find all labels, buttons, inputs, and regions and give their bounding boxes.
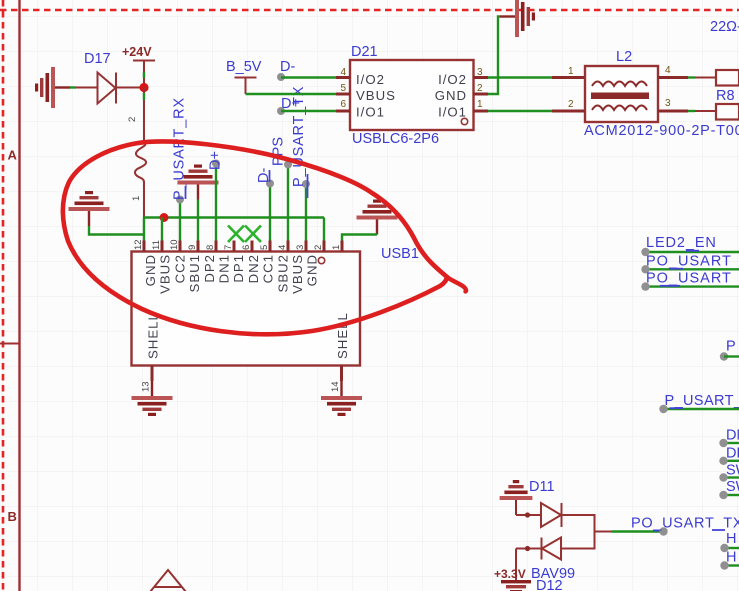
svg-text:CC1: CC1 (261, 254, 276, 283)
node P_USART (659, 405, 667, 413)
L2 winding top (592, 82, 647, 87)
svg-text:A: A (8, 148, 18, 163)
svg-text:GND: GND (143, 254, 158, 286)
svg-text:VBUS: VBUS (290, 254, 305, 294)
svg-text:USBLC6-2P6: USBLC6-2P6 (352, 131, 439, 147)
power bar B_5V (235, 77, 257, 79)
svg-text:PO_USART: PO_USART (646, 271, 732, 287)
svg-text:B: B (8, 509, 17, 524)
label underline PO_USART_TX tick (653, 530, 661, 532)
node D- (266, 180, 274, 188)
wire GND3 to pin 1 (342, 235, 377, 242)
svg-text:P: P (726, 339, 736, 355)
svg-text:LED2_EN: LED2_EN (646, 235, 717, 251)
svg-text:4: 4 (665, 65, 671, 76)
resistor R8a body (716, 70, 739, 86)
svg-text:USB1: USB1 (381, 246, 419, 262)
node P_USART_RX (176, 196, 184, 204)
node P_USART_TX (302, 180, 310, 188)
wire D- (pin 5) (269, 184, 271, 242)
svg-text:2: 2 (568, 99, 574, 110)
annotation freehand red circle (63, 142, 447, 335)
wire PO_USART 2 (646, 285, 739, 287)
right edge wire 3 (724, 476, 739, 478)
L2 core bar (591, 93, 649, 100)
svg-text:SW: SW (726, 479, 739, 495)
wire D11 cathode (562, 514, 596, 516)
wire below junction (143, 88, 145, 94)
pin 1 inversion bubble (318, 257, 324, 263)
svg-text:ACM2012-900-2P-T00: ACM2012-900-2P-T00 (584, 123, 739, 139)
svg-text:9: 9 (187, 245, 198, 250)
no-connect X pin 7 (228, 226, 244, 243)
bus wire above USB1 (144, 216, 324, 218)
wire stub PO_USART_TX red (595, 531, 612, 533)
no-connect X pin 6 (245, 226, 261, 243)
sheet border: top dashed line (0, 9, 739, 12)
wire D21 pin1 to L2 pin2 (488, 110, 552, 112)
ground GND3 (right of bus) (357, 200, 398, 235)
L2 pin3 wire (658, 110, 688, 113)
svg-text:3: 3 (665, 98, 671, 109)
D21 left pin stubs (336, 78, 488, 112)
node PO_USART 1 (641, 265, 649, 273)
svg-text:I/O2: I/O2 (356, 72, 385, 87)
pin stubs USB1 top (144, 241, 342, 252)
node PO_USART_TX (659, 527, 667, 535)
wire pin11 (161, 218, 163, 242)
connector USB1 box (132, 252, 361, 366)
svg-text:+24V: +24V (122, 45, 152, 59)
wire D17 cathode to +24V node (116, 87, 144, 89)
ground GND13 below USB left (132, 381, 173, 416)
svg-text:SBU1: SBU1 (187, 254, 202, 292)
ground GND2 (pin 9) (178, 165, 219, 200)
power +24V (133, 60, 155, 62)
svg-text:I/O2: I/O2 (438, 72, 467, 87)
ground GND_D17 (left of D17, bars pointing left) (35, 67, 70, 108)
fuse F squiggle body (135, 143, 146, 182)
diode D11 (541, 503, 561, 527)
svg-text:5: 5 (259, 245, 270, 250)
svg-text:11: 11 (151, 240, 162, 250)
node PO_USART 2 (641, 282, 649, 290)
svg-text:7: 7 (223, 245, 234, 250)
wire D21 pin3 to L2 pin1 (488, 76, 552, 78)
svg-text:2: 2 (127, 117, 138, 122)
svg-text:DP2: DP2 (202, 254, 217, 283)
svg-text:CC2: CC2 (172, 254, 187, 283)
svg-text:SW: SW (726, 463, 739, 479)
wire P_USART (664, 408, 739, 410)
wire PO_USART 1 (646, 268, 739, 270)
svg-text:SBU2: SBU2 (275, 254, 290, 292)
svg-text:R8: R8 (716, 88, 735, 104)
wire bus end down to pin 2 (323, 218, 325, 242)
svg-text:DP: DP (726, 446, 739, 462)
wire diode join vertical (594, 514, 596, 550)
svg-text:22Ω-: 22Ω- (710, 19, 739, 35)
ground GND1 (left of USB) (69, 191, 110, 226)
svg-text:1: 1 (477, 99, 483, 110)
svg-text:D17: D17 (84, 51, 111, 67)
ground GND14 below USB right (321, 381, 362, 416)
wire D12 cathode left (516, 548, 542, 550)
junction node D11 anode (525, 512, 530, 517)
wire P_USART_RX (pin 10) (179, 200, 181, 242)
wire D+ (pin 8) (215, 164, 217, 242)
D21 bubble (461, 118, 467, 124)
right edge wire H2 (725, 564, 739, 566)
right edge wire H1 (725, 547, 739, 549)
junction node +24V (139, 83, 148, 92)
svg-text:6: 6 (340, 99, 346, 110)
power triangle (bottom) (150, 570, 186, 591)
svg-text:2: 2 (313, 245, 324, 250)
svg-text:P_USART_RX: P_USART_RX (172, 97, 188, 200)
label PO_USART_TX underline (712, 529, 725, 531)
svg-text:2: 2 (477, 83, 483, 94)
wire D21 pin2 GND up (488, 17, 500, 95)
wire D12 anode (561, 548, 596, 550)
wire P_USART_TX vertical (pin 3) (305, 184, 307, 241)
svg-text:3: 3 (295, 245, 306, 250)
svg-text:SHELL: SHELL (335, 312, 350, 359)
svg-text:3: 3 (477, 67, 483, 78)
D21 pin numbers (340, 67, 483, 110)
svg-text:GND: GND (305, 254, 320, 286)
svg-text:D+: D+ (208, 151, 224, 170)
right edge wire 2 (724, 460, 739, 462)
wire PO_USART_TX (612, 530, 664, 532)
svg-text:+3.3V: +3.3V (494, 567, 526, 581)
svg-text:GND: GND (435, 88, 467, 103)
junction node D12 (525, 546, 530, 551)
node LED2_EN (641, 248, 649, 256)
IC D21 box (350, 60, 474, 130)
svg-text:8: 8 (205, 245, 216, 250)
resistor R8b body (716, 104, 739, 120)
wire GND1 to pin 12 (89, 226, 144, 235)
wire D- to D21 pin 4 (281, 76, 336, 78)
wire pin9 (197, 200, 199, 242)
power +3.3V bars (501, 580, 531, 583)
svg-text:D-: D- (280, 59, 295, 75)
right edge wire 1 (724, 442, 739, 444)
node D+ (212, 160, 220, 168)
svg-text:10: 10 (169, 239, 180, 250)
L2 winding bottom (592, 106, 647, 111)
node D- wire end (277, 73, 285, 81)
annotation tail (447, 277, 466, 292)
wire P (724, 355, 739, 357)
wire D+ to D21 pin 6 (281, 110, 336, 112)
diode D12 (542, 538, 561, 560)
svg-text:L2: L2 (616, 49, 632, 65)
wire B_5V to D21 pin 5 (246, 93, 337, 95)
node PPS (284, 161, 292, 169)
ground GND5 (top, bars pointing right) (500, 0, 535, 37)
svg-text:P_USART_: P_USART_ (665, 393, 739, 409)
svg-text:SHELL: SHELL (146, 312, 161, 359)
L2 pin4 wire (658, 76, 688, 79)
wire down to +3.3V (515, 549, 517, 581)
svg-text:B_5V: B_5V (226, 59, 262, 75)
svg-text:14: 14 (330, 381, 341, 392)
node P (720, 352, 728, 360)
svg-text:1: 1 (568, 66, 574, 77)
svg-text:D21: D21 (351, 44, 378, 60)
pin numbers USB1 top (133, 239, 342, 250)
svg-text:DM: DM (726, 427, 739, 443)
svg-text:4: 4 (277, 245, 288, 250)
diode D17 (98, 73, 116, 104)
svg-text:5: 5 (340, 83, 346, 94)
D21 pin names (356, 72, 467, 120)
wire PPS (pin 4) (287, 165, 289, 242)
svg-text:I/O1: I/O1 (356, 105, 385, 120)
pin names USB1 (143, 254, 320, 294)
wire D17 anode (70, 86, 76, 88)
svg-text:D12: D12 (536, 578, 563, 591)
zone divider (0, 343, 20, 345)
svg-text:1: 1 (331, 245, 342, 250)
right edge wire 4 (724, 494, 739, 496)
svg-text:DN2: DN2 (246, 254, 261, 283)
sheet border: left dashed line (2, 0, 5, 591)
svg-text:4: 4 (340, 67, 346, 78)
svg-text:I/O1: I/O1 (438, 105, 467, 120)
choke L2 box (585, 66, 658, 122)
wire pin12 below bus (143, 218, 145, 242)
svg-text:PO_USART: PO_USART (646, 254, 732, 270)
svg-text:PPS: PPS (271, 137, 287, 166)
svg-text:D11: D11 (529, 479, 555, 495)
ground GND4 (above D11) (500, 480, 533, 515)
svg-text:DN1: DN1 (217, 254, 232, 283)
svg-text:6: 6 (241, 245, 252, 250)
svg-text:12: 12 (133, 239, 144, 250)
pin 14 stub (340, 366, 343, 382)
wire GND4 to D11 anode (516, 514, 541, 516)
junction node pin 11 (160, 213, 169, 222)
wire LED2_EN (646, 251, 739, 253)
sheet border: left solid line (18, 0, 20, 591)
svg-text:VBUS: VBUS (356, 88, 396, 103)
pin 13 stub (151, 366, 154, 382)
svg-text:VBUS: VBUS (158, 254, 173, 294)
svg-text:H: H (726, 531, 736, 547)
node D+ wire end (277, 107, 285, 115)
svg-text:1: 1 (131, 196, 142, 201)
wire squiggle to bus (143, 182, 145, 218)
svg-text:DP1: DP1 (231, 254, 246, 283)
svg-text:13: 13 (141, 381, 152, 392)
